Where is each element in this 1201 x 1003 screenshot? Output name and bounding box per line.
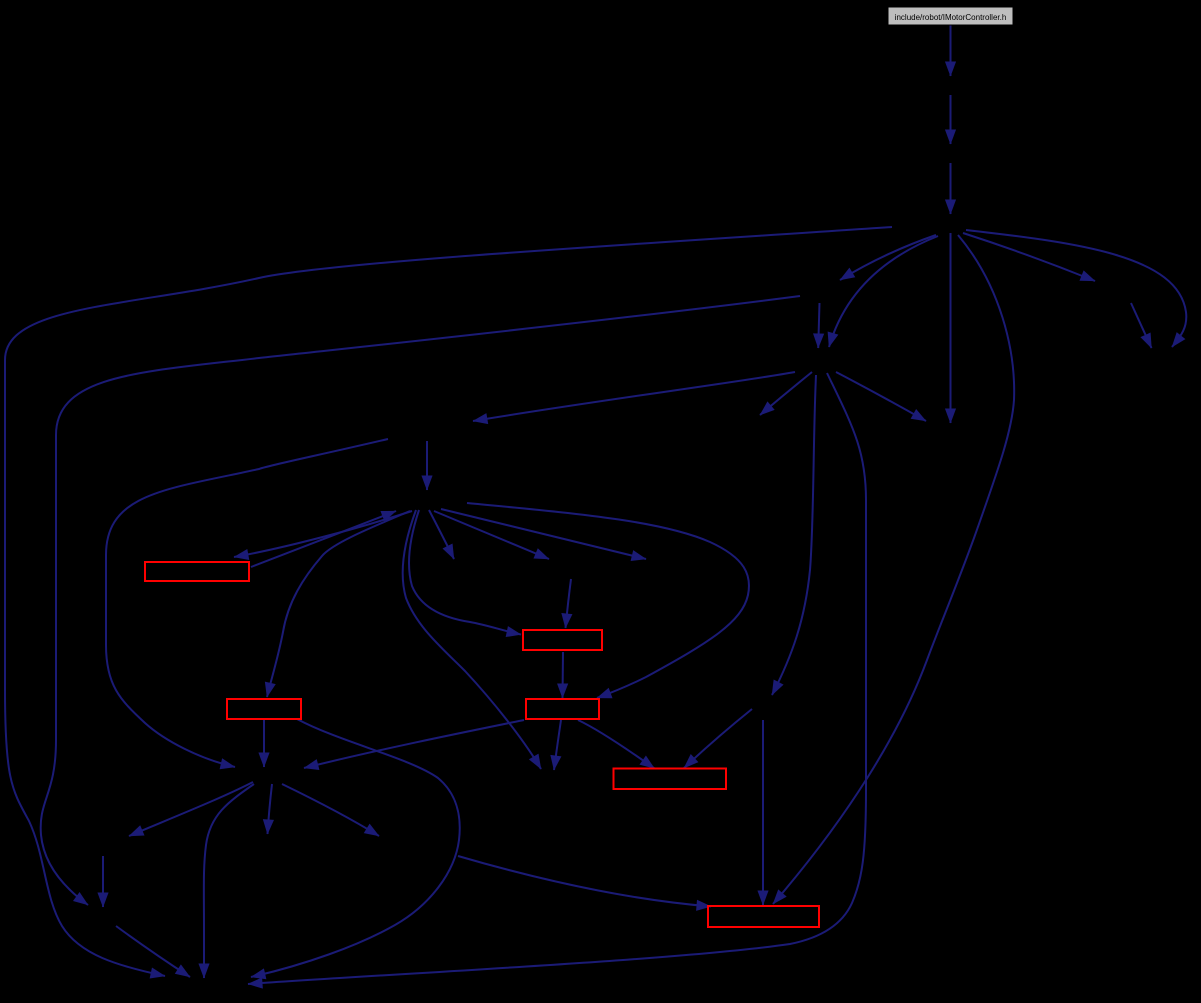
wire edge D to S far left curve (41, 296, 800, 905)
wire edge C to L far left curve (5, 227, 892, 976)
wire edge J to box1 (234, 511, 412, 557)
svg-text:include/robot/IMotorController: include/robot/IMotorController.h (895, 13, 1007, 22)
wire edge C to G (963, 233, 1095, 281)
wire edge E to U (772, 375, 816, 695)
wire edge box4 to T (554, 720, 561, 770)
wire edge box3 to L arc (251, 719, 460, 977)
wire edge J to P8 (441, 509, 646, 559)
wire edge K to Q (268, 784, 273, 834)
wire edge J to box3 curve (267, 511, 410, 697)
wire edge P to S (102, 856, 104, 907)
wire edge K to R (282, 784, 379, 836)
wire edge K to P (129, 782, 253, 836)
wire edge J to T curve (403, 510, 541, 769)
wire edge box1 to J (251, 511, 396, 567)
wire edge J to box4 right arc (467, 503, 749, 698)
wire edge O to box2 (566, 579, 572, 628)
wire edge E to L channel curve (248, 373, 866, 984)
node box4 truncated red (526, 699, 599, 719)
wire edge box3 to K (263, 719, 265, 767)
wire edge C to D (840, 235, 936, 280)
wire edge C to box6 swoosh (773, 235, 1014, 904)
wire edge S to L (116, 926, 190, 977)
wire edge C to H (966, 230, 1186, 347)
wire edge E to F (836, 372, 926, 421)
wire edge C to F (950, 233, 952, 423)
wire edge U to box6 (762, 720, 764, 905)
wire edge K to L (204, 784, 254, 978)
wire edge M to K (106, 439, 388, 767)
wire edge box4 to box5 (578, 720, 655, 769)
node box5 truncated red (614, 769, 727, 790)
node box6 truncated red (708, 906, 819, 927)
wire edge J to N (429, 510, 454, 559)
wire edge N0 to N1 (950, 25, 952, 76)
wire edge N2 to C (950, 163, 952, 214)
wire edge M to J (426, 441, 428, 490)
wire edge R to box6 (458, 856, 711, 907)
wire edge J to O (434, 511, 549, 559)
wire edge C to E (829, 236, 938, 347)
wire edge J to box2 left side (409, 510, 521, 635)
node box2 truncated red (523, 630, 602, 650)
node box3 truncated red (227, 699, 301, 719)
wire edge N1 to N2 (950, 95, 952, 144)
wire edge E to M (473, 372, 795, 421)
wire edge box2 to box4 (562, 652, 565, 698)
wire edge G to H (1131, 303, 1152, 348)
wire edge E to I (760, 372, 812, 415)
node box1 truncated red (145, 562, 249, 581)
wire edge D to E (818, 303, 819, 348)
wire edge box4 to K (304, 720, 524, 768)
wire edge U to box5 (684, 709, 752, 768)
node N0 main grey box include/robot/IMotorController.h (888, 7, 1013, 25)
